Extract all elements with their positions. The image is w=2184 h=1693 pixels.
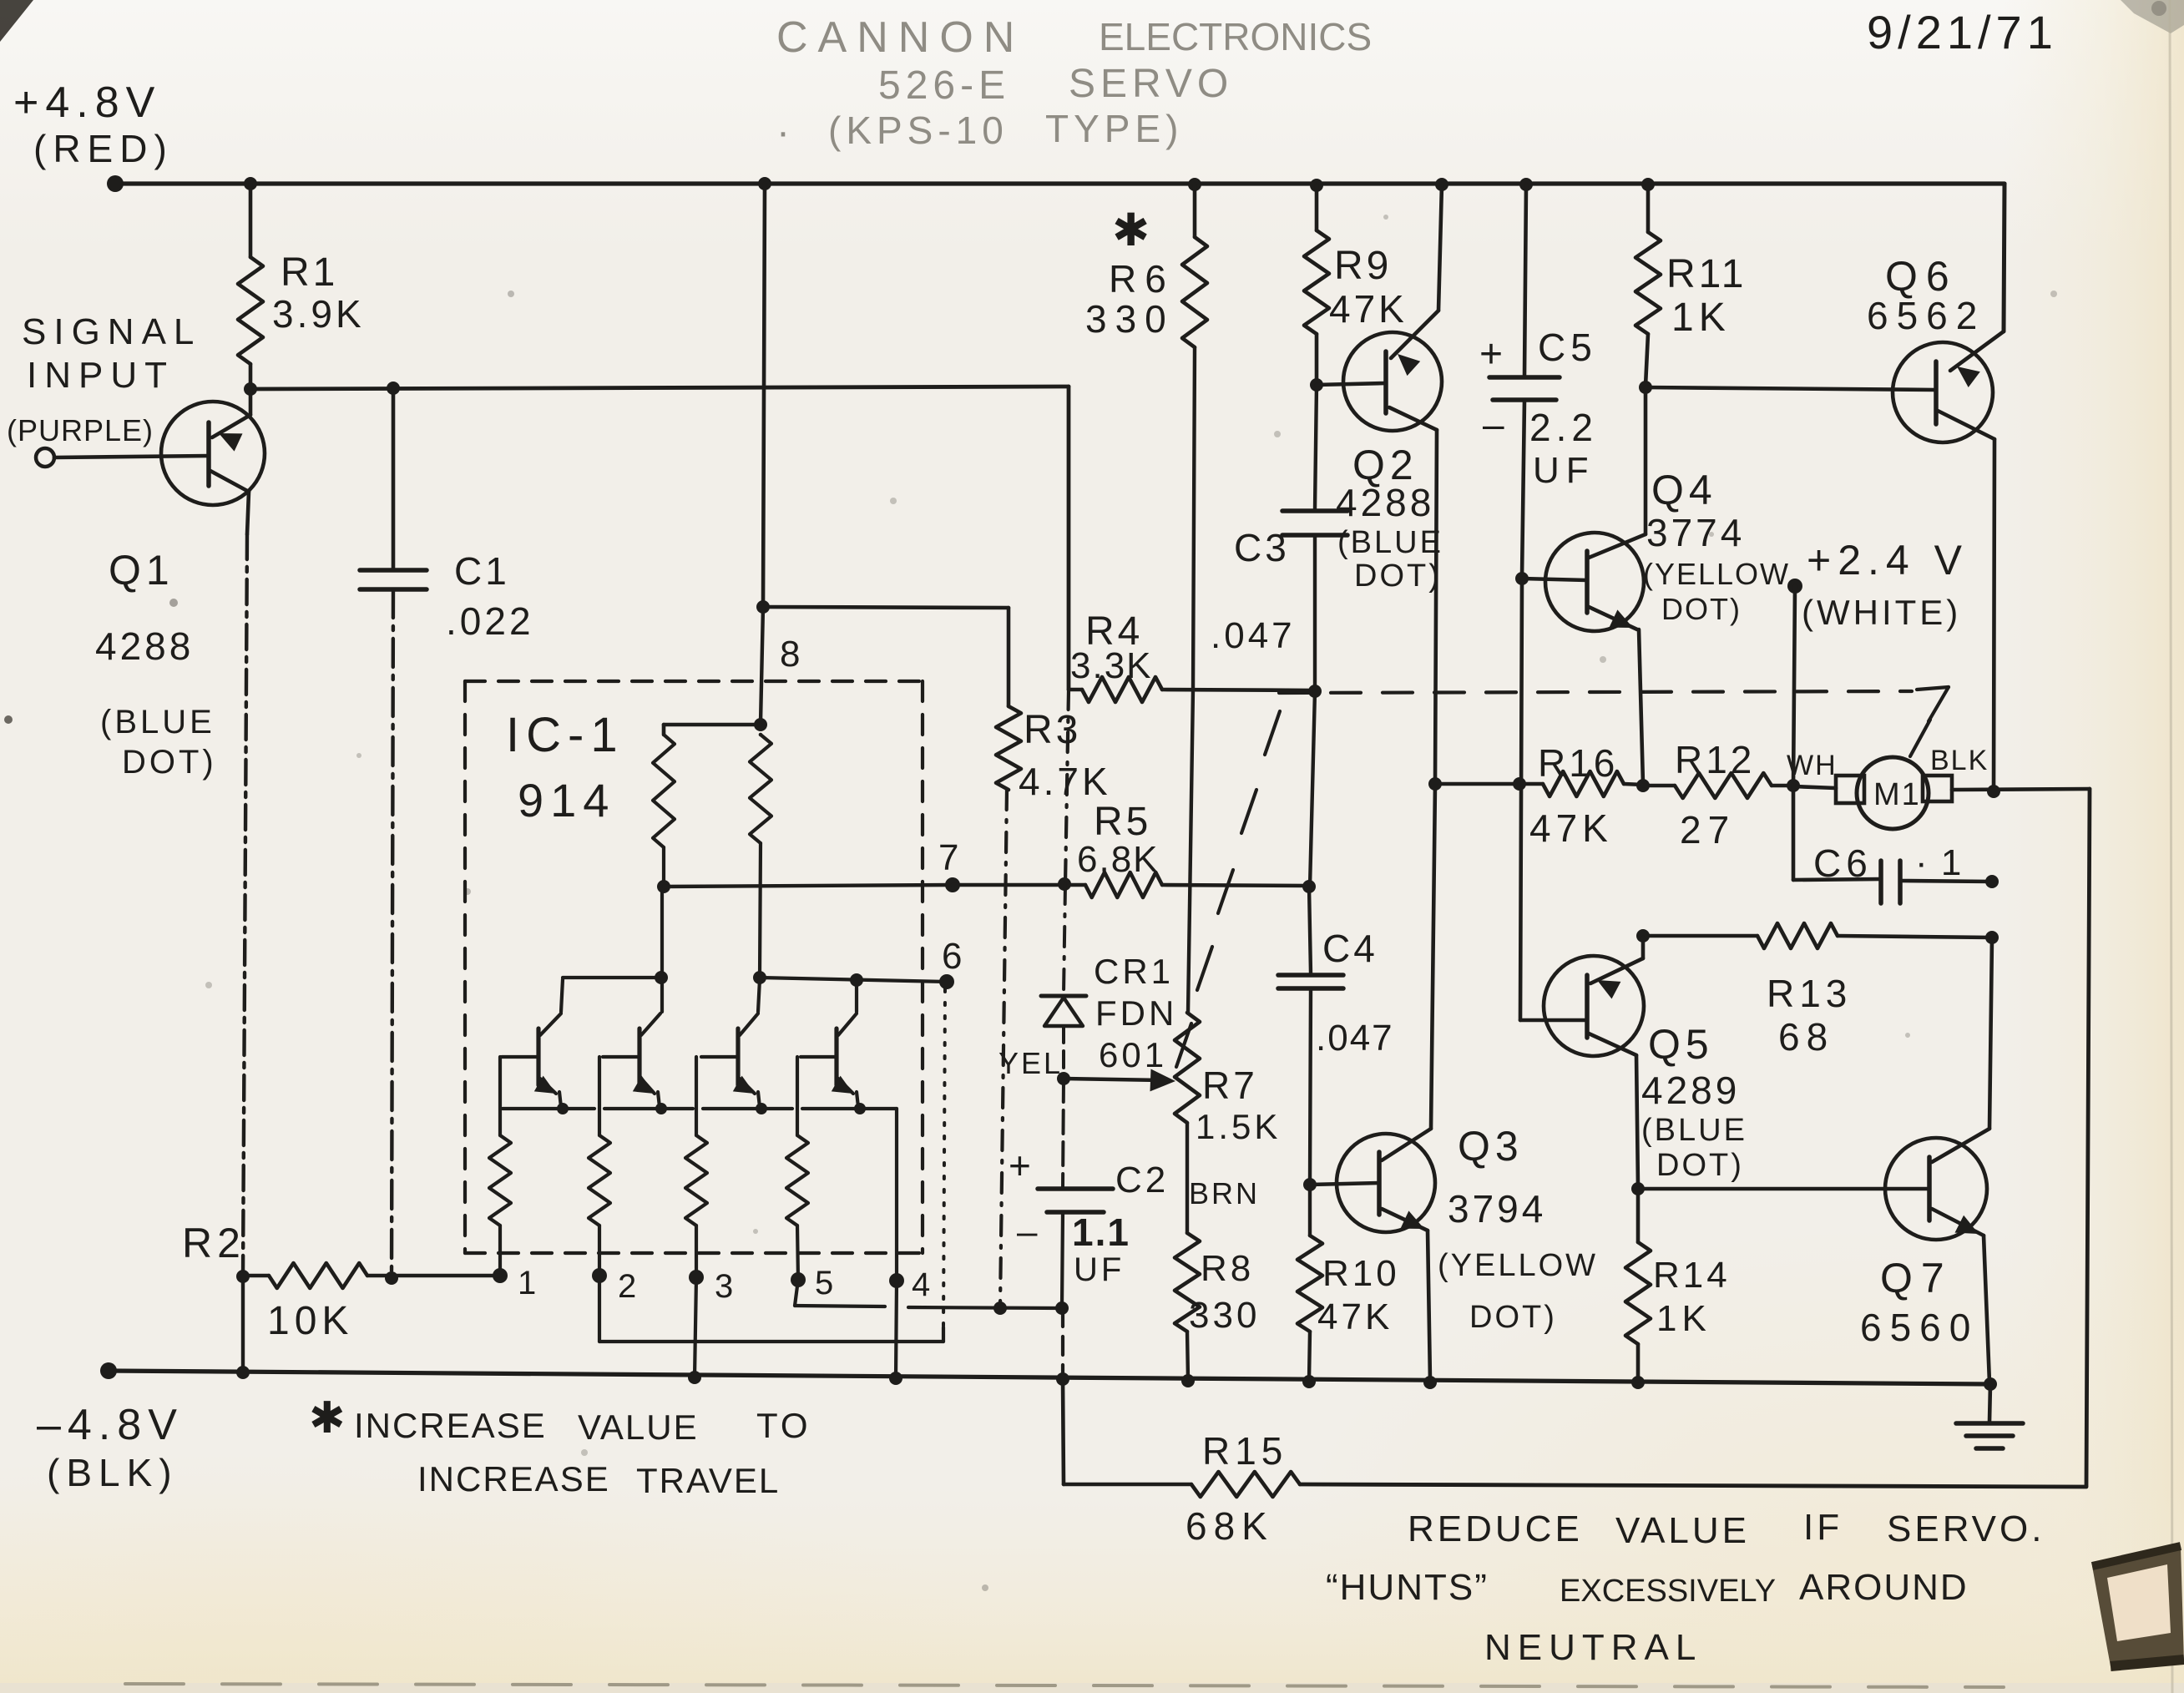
junction top rail IC pin8 column — [758, 177, 771, 190]
date 9/21/71 — [1867, 6, 2058, 58]
svg-text:47K: 47K — [1329, 287, 1408, 331]
svg-text:10K: 10K — [267, 1299, 353, 1343]
svg-text:IC-1: IC-1 — [506, 708, 624, 762]
svg-text:47K: 47K — [1317, 1296, 1393, 1337]
svg-text:.047: .047 — [1316, 1018, 1394, 1059]
pin 7 terminal — [938, 837, 960, 892]
capacitor C1 — [360, 388, 534, 1278]
svg-text:C1: C1 — [454, 549, 510, 593]
pin 1 — [493, 1265, 536, 1301]
wire pin8 column — [763, 184, 765, 607]
svg-text:6560: 6560 — [1860, 1306, 1979, 1349]
wire CR1 column upper — [1064, 884, 1065, 994]
resistor IC-R5 — [786, 1057, 808, 1280]
transistor Q1 — [54, 389, 265, 781]
pin 5 — [791, 1265, 833, 1301]
svg-text:1: 1 — [518, 1265, 536, 1301]
resistor R1 — [238, 184, 365, 389]
transistor Q3 — [1310, 784, 1598, 1381]
wire C5 column to Q5 base — [1520, 579, 1522, 1020]
svg-text:(BLUE: (BLUE — [100, 704, 215, 740]
wire Q1 collector down to R2 row — [243, 534, 247, 1276]
svg-text:“HUNTS”: “HUNTS” — [1326, 1567, 1489, 1608]
transistor Q6 — [1646, 253, 2004, 791]
wire top rail corner down to Q6 — [2004, 184, 2005, 331]
node 8 — [756, 600, 800, 675]
junction T4 emitter — [854, 1103, 866, 1114]
mech slash at motor — [1910, 720, 1930, 756]
junction R11 Q6 base Q4 collector — [1639, 381, 1652, 394]
svg-text:INPUT: INPUT — [27, 355, 174, 396]
svg-text:.022: .022 — [446, 599, 534, 643]
resistor R5 — [953, 800, 1310, 897]
junction top rail R1 — [244, 177, 257, 190]
svg-text:INCREASE: INCREASE — [354, 1406, 547, 1445]
svg-text:C2: C2 — [1115, 1160, 1169, 1200]
svg-text:47K: 47K — [1529, 806, 1613, 850]
svg-text:VALUE: VALUE — [578, 1407, 699, 1447]
transistor Q2 — [1317, 184, 1443, 782]
resistor R9 — [1304, 185, 1408, 383]
transistor IC-T3 — [701, 979, 760, 1107]
svg-text:R2: R2 — [182, 1220, 245, 1266]
paper bottom scan edge — [125, 1684, 2004, 1687]
svg-text:SERVO: SERVO — [1069, 62, 1233, 106]
svg-text:Q6: Q6 — [1885, 253, 1958, 300]
resistor IC-R1 — [489, 1057, 511, 1276]
svg-text:3: 3 — [715, 1268, 733, 1305]
note increase value — [309, 1394, 811, 1447]
svg-text:AROUND: AROUND — [1799, 1567, 1969, 1608]
wire pin6 dotted down — [943, 989, 945, 1327]
resistor R3 — [996, 608, 1111, 803]
wire IC emitter bus left — [503, 1107, 693, 1110]
svg-text:CR1: CR1 — [1094, 952, 1174, 991]
junction pin5 row R3 column — [993, 1301, 1007, 1315]
svg-text:(BLK): (BLK) — [47, 1451, 179, 1494]
svg-text:Q4: Q4 — [1651, 467, 1717, 513]
wire +2.4V column — [1793, 586, 1795, 786]
svg-text:R10: R10 — [1322, 1253, 1400, 1294]
svg-text:R5: R5 — [1094, 800, 1151, 844]
label IC-1 914 — [506, 708, 624, 826]
svg-text:+: + — [1009, 1144, 1031, 1187]
svg-text:M1: M1 — [1873, 777, 1921, 812]
junction T2 emitter — [655, 1103, 667, 1114]
junction R5 C4 — [1302, 880, 1316, 893]
junction pin5 row C2 column — [1055, 1301, 1069, 1315]
wire YEL to R7 wiper — [1064, 1069, 1175, 1092]
node IC top — [664, 718, 767, 731]
pin 4 — [889, 1266, 930, 1303]
terminal -4.8V — [100, 1362, 117, 1379]
svg-text:DOT): DOT) — [122, 744, 217, 781]
svg-text:5: 5 — [815, 1265, 833, 1301]
junction R13 Q4Q5 — [1636, 929, 1650, 943]
svg-text:9/21/71: 9/21/71 — [1867, 6, 2058, 58]
wire pin5 row — [795, 1280, 1062, 1308]
capacitor C2 — [1009, 1079, 1169, 1306]
svg-text:Q3: Q3 — [1458, 1123, 1524, 1170]
capacitor C6 — [1813, 841, 1992, 903]
svg-text:DOT): DOT) — [1354, 558, 1442, 594]
svg-text:4.7K: 4.7K — [1019, 760, 1111, 803]
junction IC bus T4 — [850, 973, 863, 987]
transistor Q7 — [1638, 937, 1992, 1382]
junction Q7 base row — [1631, 1182, 1645, 1195]
resistor R14 — [1625, 1189, 1731, 1381]
svg-text:526-E: 526-E — [878, 63, 1010, 108]
svg-text:–: – — [1483, 402, 1504, 446]
resistor R13 — [1757, 923, 1992, 1059]
junction C6 output column — [1985, 875, 1999, 888]
svg-text:TYPE): TYPE) — [1045, 107, 1183, 150]
motor M1 — [1787, 745, 2090, 829]
title line 1 CANNON ELECTRONICS — [776, 13, 1372, 62]
junction pin7 row signal column — [1058, 877, 1071, 891]
svg-text:R13: R13 — [1767, 972, 1852, 1015]
mech link slashes — [1176, 711, 1280, 1067]
junction signal rail C1 — [387, 382, 400, 395]
junction R2 C1 — [385, 1271, 398, 1285]
wire IC T1 collector bus — [563, 976, 661, 979]
svg-text:R1: R1 — [281, 250, 338, 295]
svg-text:4288: 4288 — [1336, 481, 1434, 524]
junction top rail Q2 emitter — [1435, 178, 1448, 191]
svg-text:INCREASE: INCREASE — [417, 1459, 610, 1498]
junction motor row Q2Q3 column — [1428, 777, 1442, 791]
svg-text:UF: UF — [1074, 1251, 1125, 1288]
svg-text:DOT): DOT) — [1469, 1300, 1557, 1335]
paper speckles — [169, 215, 2057, 1591]
junction T1 emitter — [557, 1103, 569, 1114]
terminal +2.4V — [1787, 537, 1969, 632]
wire R7 to R8 BRN — [1187, 1123, 1260, 1233]
junction bottom rail pin4 — [889, 1372, 902, 1385]
svg-text:(YELLOW: (YELLOW — [1438, 1248, 1598, 1283]
wire signal input rail — [250, 387, 1069, 389]
resistor IC-RB — [750, 735, 771, 976]
svg-text:27: 27 — [1680, 808, 1736, 852]
svg-text:4289: 4289 — [1641, 1069, 1740, 1112]
svg-text:R15: R15 — [1202, 1429, 1287, 1473]
node YEL — [998, 1046, 1070, 1085]
svg-text:C3: C3 — [1234, 526, 1290, 569]
potentiometer R7 — [1175, 1013, 1281, 1146]
note increase travel — [417, 1459, 780, 1500]
label -4.8V (BLK) — [37, 1401, 184, 1494]
resistor IC-R3 — [685, 1057, 707, 1277]
svg-text:1K: 1K — [1656, 1298, 1711, 1339]
transistor Q5 — [1520, 937, 1747, 1187]
svg-text:R3: R3 — [1024, 708, 1081, 752]
wire RA column down — [660, 887, 664, 1012]
wire output column — [2086, 789, 2090, 1486]
svg-text:IF: IF — [1803, 1507, 1843, 1548]
wire R3 column dash down — [1000, 790, 1007, 1306]
svg-text:914: 914 — [518, 774, 615, 826]
svg-text:R9: R9 — [1334, 244, 1392, 288]
svg-text:330: 330 — [1189, 1295, 1260, 1336]
svg-text:R16: R16 — [1538, 741, 1618, 785]
svg-text:R11: R11 — [1666, 252, 1747, 296]
pin 6 terminal — [939, 936, 962, 989]
svg-text:BRN: BRN — [1189, 1176, 1260, 1210]
wire signal column dashdot — [1065, 690, 1069, 884]
terminal signal input — [36, 448, 54, 467]
resistor R15 — [1063, 1379, 2086, 1548]
label SIGNAL INPUT (PURPLE) — [7, 311, 201, 447]
svg-text:EXCESSIVELY: EXCESSIVELY — [1560, 1574, 1776, 1609]
svg-text:✱: ✱ — [309, 1394, 346, 1443]
svg-text:SIGNAL: SIGNAL — [22, 311, 201, 352]
junction bottom rail R14 — [1631, 1376, 1645, 1389]
wire motor row left — [1435, 782, 1543, 786]
resistor R12 — [1643, 738, 1793, 852]
wire +4.8V top rail — [115, 181, 2005, 185]
svg-text:ELECTRONICS: ELECTRONICS — [1099, 15, 1372, 58]
resistor R11 — [1635, 184, 1747, 386]
wire R6 to R7 column — [1188, 690, 1193, 1013]
svg-text:UF: UF — [1533, 450, 1595, 491]
svg-text:CANNON: CANNON — [776, 13, 1024, 62]
svg-text:8: 8 — [780, 634, 800, 675]
svg-text:WH: WH — [1787, 750, 1838, 781]
wire emitter bus down to pin4 — [895, 1109, 898, 1279]
resistor IC-RA — [653, 725, 675, 885]
svg-text:R14: R14 — [1653, 1255, 1731, 1296]
ground — [1956, 1384, 2023, 1448]
svg-text:R7: R7 — [1202, 1064, 1258, 1107]
node IC RB bus — [753, 971, 766, 984]
junction motor output Q6 collector — [1987, 785, 2000, 798]
svg-text:2: 2 — [618, 1268, 636, 1305]
svg-text:· 1: · 1 — [1915, 842, 1963, 883]
svg-text:TRAVEL: TRAVEL — [636, 1461, 780, 1500]
svg-text:1K: 1K — [1671, 296, 1731, 340]
svg-text:NEUTRAL: NEUTRAL — [1484, 1627, 1702, 1668]
resistor R6 — [1085, 184, 1207, 690]
wire pin2 route — [599, 1276, 943, 1342]
svg-text:–4.8V: –4.8V — [37, 1401, 184, 1449]
junction Q3 base — [1303, 1178, 1317, 1191]
paper corner mark top-left — [0, 0, 33, 42]
svg-text:VALUE: VALUE — [1615, 1510, 1750, 1551]
svg-text:7: 7 — [938, 837, 958, 878]
transistor IC-T4 — [801, 982, 858, 1107]
junction top rail R9 — [1310, 179, 1323, 192]
svg-text:(BLUE: (BLUE — [1641, 1113, 1747, 1148]
transistor Q4 — [1522, 387, 1790, 784]
svg-text:Q7: Q7 — [1880, 1255, 1953, 1301]
svg-text:6562: 6562 — [1867, 294, 1985, 337]
diode CR1 — [1041, 952, 1177, 1077]
svg-text:68: 68 — [1778, 1015, 1834, 1059]
wire signal rail corner down — [1067, 387, 1071, 690]
resistor R8 — [1175, 1233, 1260, 1379]
junction signal rail Q1 — [244, 382, 257, 396]
wire IC emitter bus right — [703, 1107, 897, 1110]
svg-text:6.8K: 6.8K — [1077, 839, 1160, 880]
junction bottom rail Q3 — [1423, 1376, 1437, 1389]
junction bottom rail C2/R15 — [1056, 1372, 1069, 1386]
svg-text:601: 601 — [1099, 1035, 1167, 1074]
junction bottom rail ground — [1984, 1377, 1997, 1391]
junction bottom rail pin3 — [688, 1371, 701, 1384]
junction R13 output column — [1985, 931, 1999, 944]
junction Q4 base — [1515, 572, 1529, 585]
svg-text:1.5K: 1.5K — [1196, 1107, 1281, 1146]
wire pin7 row — [664, 885, 953, 887]
resistor R2 — [182, 1220, 500, 1343]
mech dashed line — [1279, 691, 1912, 693]
svg-text:1.1: 1.1 — [1072, 1210, 1130, 1254]
junction top rail C5 — [1519, 178, 1533, 191]
wire pin3 down to rail — [695, 1277, 696, 1377]
svg-text:4: 4 — [912, 1266, 930, 1303]
junction motor row Q4 emitter — [1636, 779, 1650, 792]
note reduce value line1 — [1408, 1507, 2045, 1551]
junction top rail R11 — [1641, 178, 1655, 191]
ink stain bottom-right — [2092, 1546, 2184, 1666]
svg-text:·: · — [776, 110, 790, 154]
pin 3 — [689, 1268, 733, 1305]
junction bottom rail R8 — [1181, 1374, 1195, 1387]
svg-text:C4: C4 — [1322, 927, 1378, 970]
paper smudge top-right — [2121, 0, 2184, 33]
svg-text:(YELLOW: (YELLOW — [1643, 557, 1790, 591]
svg-text:DOT): DOT) — [1661, 592, 1742, 626]
resistor IC-R2 — [589, 1057, 610, 1276]
svg-text:R8: R8 — [1201, 1248, 1254, 1289]
note reduce value line2 — [1326, 1567, 1969, 1609]
title line 2 526-E SERVO — [878, 62, 1233, 108]
svg-text:DOT): DOT) — [1656, 1148, 1744, 1183]
svg-text:3.9K: 3.9K — [272, 292, 365, 336]
junction R2 Q1 — [236, 1270, 250, 1283]
svg-text:TO: TO — [756, 1406, 811, 1445]
resistor R4 — [1069, 609, 1315, 702]
svg-text:2.2: 2.2 — [1529, 406, 1598, 449]
svg-text:+: + — [1479, 332, 1503, 377]
resistor R10 — [1297, 1185, 1400, 1380]
junction motor row C5 column — [1513, 777, 1526, 791]
svg-text:REDUCE: REDUCE — [1408, 1509, 1583, 1549]
svg-text:3.3K: 3.3K — [1070, 645, 1153, 686]
wire -4.8V bottom rail — [109, 1371, 1990, 1384]
svg-text:SERVO.: SERVO. — [1887, 1509, 2045, 1549]
svg-text:R6: R6 — [1109, 257, 1175, 301]
junction Q2 base — [1310, 378, 1323, 392]
capacitor C5 — [1479, 184, 1598, 577]
wire C6 row left — [1793, 786, 1881, 880]
junction top rail R6 — [1188, 178, 1201, 191]
wire IC T3T4 collector bus — [760, 978, 947, 982]
svg-text:BLK: BLK — [1930, 745, 1989, 776]
svg-text:(WHITE): (WHITE) — [1802, 593, 1961, 632]
wire R13 row left — [1643, 934, 1757, 938]
title line 3 KPS-10 TYPE — [776, 107, 1183, 154]
wire C2 to R15 column — [1061, 1308, 1064, 1379]
svg-text:Q1: Q1 — [109, 547, 174, 594]
junction IC bus T2 — [655, 971, 668, 984]
mech link glyph 7 — [1917, 687, 1949, 721]
node IC RA pin7 — [657, 880, 670, 893]
transistor IC-T1 — [502, 979, 563, 1107]
svg-text:(KPS-10: (KPS-10 — [828, 109, 1009, 152]
capacitor C3 — [1211, 385, 1347, 690]
junction T3 emitter — [756, 1103, 767, 1114]
svg-text:+2.4 V: +2.4 V — [1807, 537, 1969, 584]
junction motor row +2.4V column — [1787, 779, 1800, 792]
svg-text:FDN: FDN — [1095, 993, 1177, 1033]
svg-text:4288: 4288 — [95, 624, 194, 668]
IC IC-1 dashed border — [465, 681, 923, 1253]
svg-text:✱: ✱ — [1112, 205, 1150, 255]
wire node8 to R3 column — [763, 607, 1009, 608]
svg-text:C5: C5 — [1538, 326, 1597, 369]
svg-text:C6: C6 — [1813, 841, 1873, 885]
svg-text:3774: 3774 — [1646, 511, 1745, 554]
terminal +4.8V — [107, 175, 124, 192]
transistor IC-T2 — [603, 1013, 660, 1107]
wire node8 down into IC — [761, 607, 763, 723]
wire Q1 column to bottom rail — [241, 1276, 245, 1372]
svg-text:6: 6 — [942, 936, 962, 977]
wire pin4 down to rail — [896, 1281, 897, 1378]
svg-text:YEL: YEL — [998, 1046, 1063, 1080]
junction R4 C3 column — [1308, 685, 1322, 698]
svg-text:R12: R12 — [1675, 738, 1755, 781]
svg-text:(BLUE: (BLUE — [1337, 525, 1443, 560]
resistor R16 — [1529, 741, 1643, 850]
svg-text:Q5: Q5 — [1648, 1021, 1714, 1068]
svg-text:(RED): (RED) — [33, 127, 174, 170]
svg-text:–: – — [1017, 1211, 1038, 1252]
note reduce value line3 — [1484, 1627, 1702, 1668]
label +4.8V (RED) — [13, 78, 174, 170]
paper edge line right — [2170, 0, 2172, 1693]
capacitor C4 — [1278, 691, 1394, 1183]
junction bottom rail Q1 column — [236, 1366, 250, 1379]
svg-text:+4.8V: +4.8V — [13, 78, 161, 127]
stray dot left margin — [4, 715, 13, 724]
svg-text:330: 330 — [1085, 297, 1175, 341]
svg-text:3794: 3794 — [1448, 1187, 1546, 1231]
svg-text:68K: 68K — [1186, 1504, 1274, 1548]
pin 2 — [592, 1268, 636, 1305]
junction bottom rail R10 — [1302, 1375, 1316, 1388]
svg-text:.047: .047 — [1211, 615, 1296, 656]
svg-text:(PURPLE): (PURPLE) — [7, 413, 154, 447]
